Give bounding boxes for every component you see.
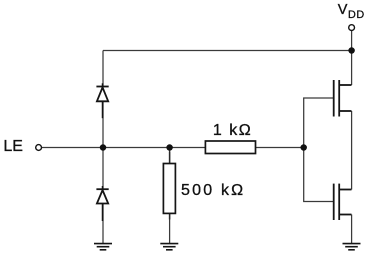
wire D1 anode to node A xyxy=(102,101,104,147)
svg-text:V: V xyxy=(338,2,348,18)
wire R1 right lead to node C xyxy=(256,147,304,149)
ground (left, below D2) xyxy=(94,244,112,250)
terminal LE (open circle) xyxy=(36,145,42,151)
wire Q2 source to right ground xyxy=(351,215,353,244)
diode D1 (clamp to VDD) xyxy=(96,83,108,118)
diode D2 (clamp to ground) xyxy=(96,186,108,221)
wire LE terminal to node A xyxy=(42,147,103,149)
wire VDD terminal to node D xyxy=(351,31,353,51)
node D junction dot (VDD rail) xyxy=(348,47,355,54)
terminal VDD (open circle) xyxy=(349,25,355,31)
node A junction dot (LE / diodes) xyxy=(100,144,107,151)
wire top rail VDD xyxy=(103,50,352,52)
resistor R1 1 kOhm (horizontal box) xyxy=(205,141,255,154)
node C junction dot (gate bus) xyxy=(300,144,307,151)
wire node B to R1 left lead xyxy=(170,147,206,149)
resistor R2 500 kOhm (vertical box) xyxy=(163,164,175,214)
wire node D down to Q1 drain stub xyxy=(351,51,353,86)
wire node B down to R2 top xyxy=(169,148,171,164)
svg-text:500 kΩ: 500 kΩ xyxy=(181,182,245,199)
wire gate bus (Q1 gate to Q2 gate) xyxy=(304,98,334,202)
svg-text:LE: LE xyxy=(3,138,23,155)
ground (middle, below R2) xyxy=(160,244,178,250)
wire Q1 source to Q2 drain xyxy=(351,111,353,190)
wire left drop from rail to D1 cathode xyxy=(102,51,104,87)
resistor R2 lead stubs xyxy=(169,152,171,164)
transistor Q2 (lower MOSFET) xyxy=(334,184,352,220)
wire node A to node B xyxy=(103,147,170,149)
transistor Q1 (upper MOSFET) xyxy=(334,80,352,117)
svg-text:DD: DD xyxy=(348,9,365,21)
wire D2 anode to left ground xyxy=(102,204,104,244)
node B junction dot (R2 tap) xyxy=(166,144,173,151)
svg-text:1 kΩ: 1 kΩ xyxy=(213,122,252,139)
wire R2 bottom to middle ground xyxy=(169,213,171,243)
ground (right, below Q2) xyxy=(343,244,361,250)
wire node A to D2 cathode xyxy=(102,148,104,190)
